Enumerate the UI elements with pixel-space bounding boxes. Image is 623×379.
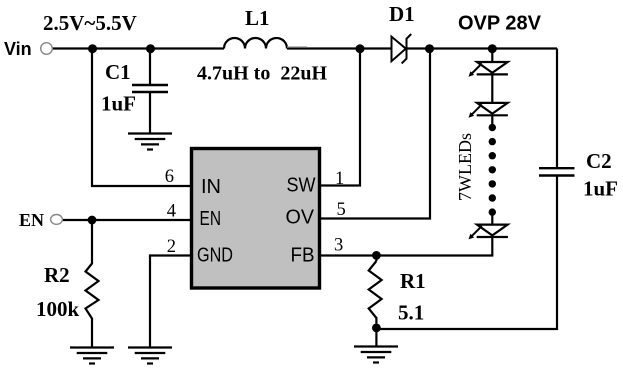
svg-text:C2: C2 <box>586 149 612 173</box>
svg-text:1: 1 <box>335 169 344 189</box>
svg-text:R1: R1 <box>400 269 426 293</box>
svg-text:EN: EN <box>200 208 222 230</box>
svg-text:7WLEDs: 7WLEDs <box>455 133 475 201</box>
svg-text:OV: OV <box>286 207 315 229</box>
svg-text:6: 6 <box>165 167 174 187</box>
svg-text:D1: D1 <box>389 2 415 26</box>
svg-text:L1: L1 <box>245 6 270 30</box>
svg-text:2: 2 <box>167 237 176 257</box>
svg-text:1uF: 1uF <box>101 92 136 116</box>
svg-text:EN: EN <box>19 210 44 230</box>
svg-text:C1: C1 <box>105 60 131 84</box>
svg-text:1uF: 1uF <box>583 177 618 201</box>
svg-text:IN: IN <box>201 176 221 198</box>
svg-text:Vin: Vin <box>4 39 32 59</box>
svg-text:GND: GND <box>197 245 233 267</box>
svg-text:100k: 100k <box>36 297 80 321</box>
svg-text:4: 4 <box>167 202 176 222</box>
svg-text:2.5V~5.5V: 2.5V~5.5V <box>43 11 137 35</box>
svg-text:4.7uH to 22uH: 4.7uH to 22uH <box>197 63 327 85</box>
svg-text:5: 5 <box>337 200 346 220</box>
svg-text:R2: R2 <box>44 263 70 287</box>
svg-text:FB: FB <box>291 245 315 267</box>
svg-text:SW: SW <box>287 175 316 197</box>
svg-text:OVP 28V: OVP 28V <box>458 13 542 35</box>
svg-text:3: 3 <box>334 236 343 256</box>
svg-text:5.1: 5.1 <box>398 301 424 325</box>
